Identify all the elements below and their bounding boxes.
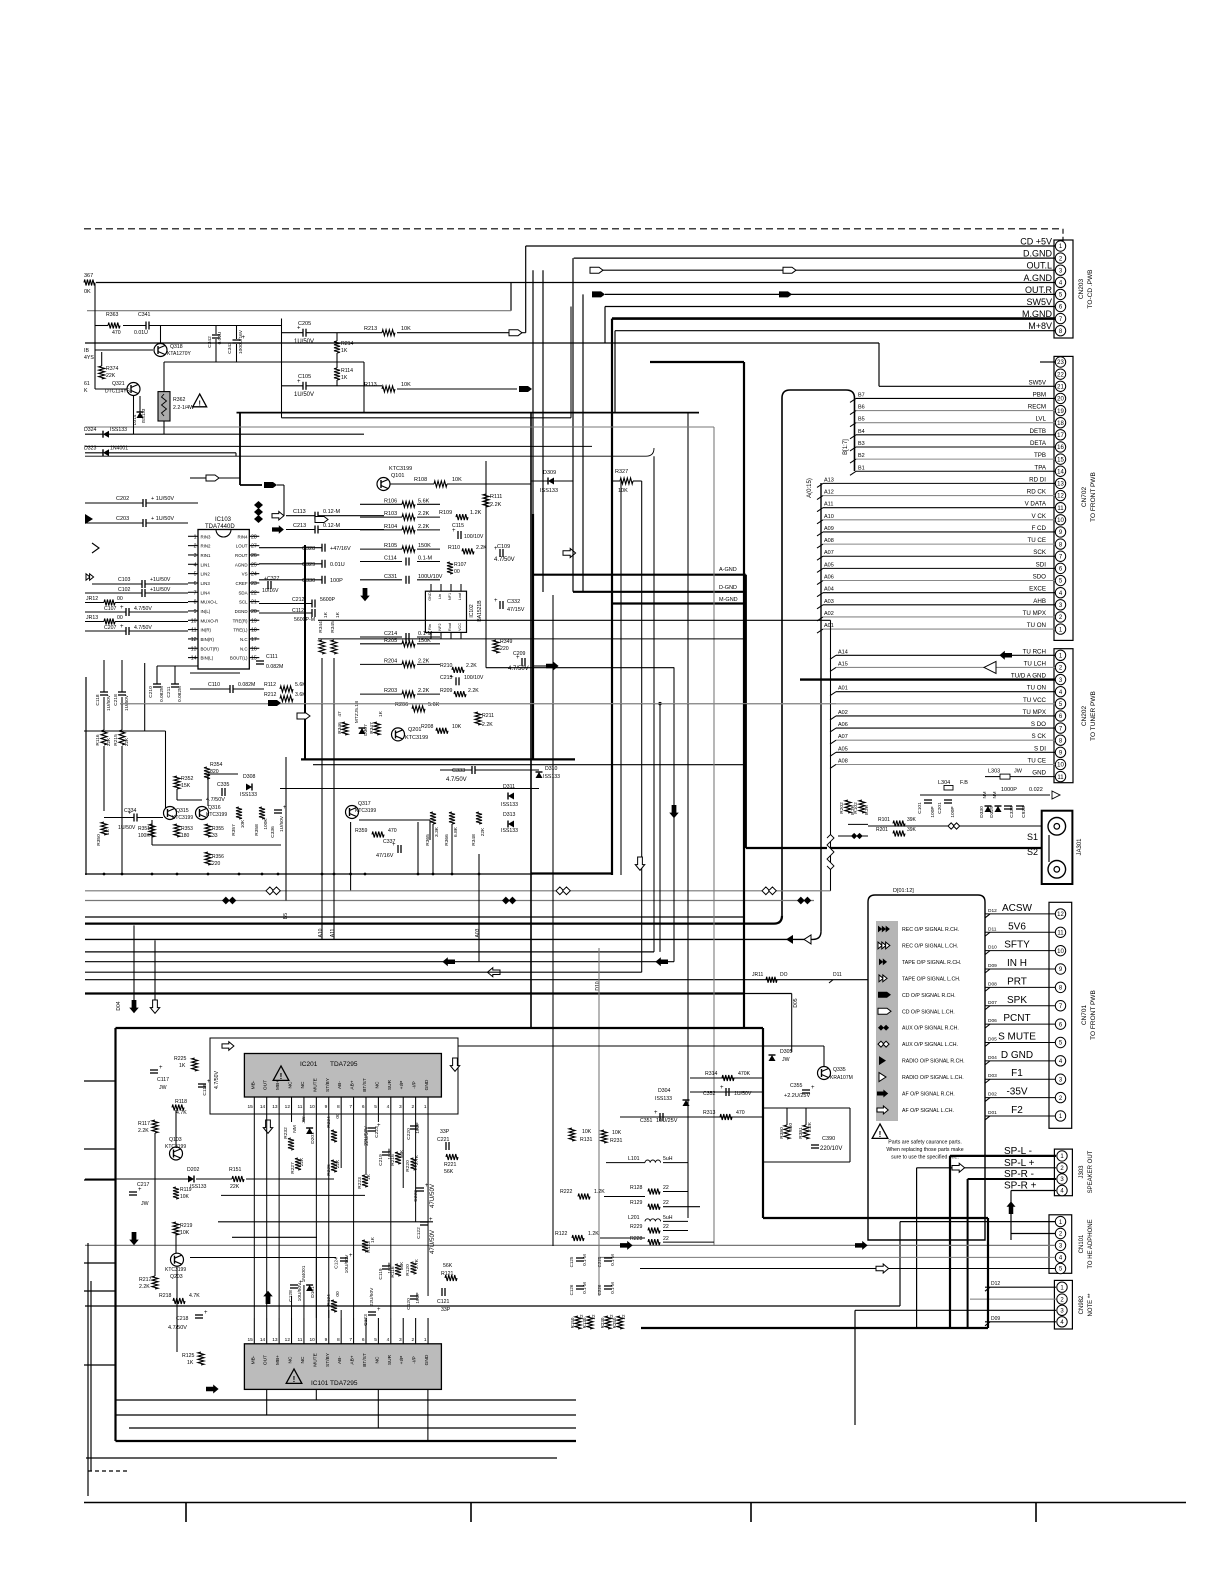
svg-text:MUXO-R: MUXO-R xyxy=(201,618,219,623)
svg-text:R351: R351 xyxy=(138,826,150,832)
svg-text:A10: A10 xyxy=(318,928,324,937)
IC103 pin 6 LIN3 xyxy=(188,582,198,584)
svg-text:10K: 10K xyxy=(401,382,411,388)
svg-text:12: 12 xyxy=(285,1104,291,1110)
legend row AUX O/P SIGNAL L.CH. xyxy=(878,1041,884,1047)
resistor R352 15K xyxy=(174,776,180,789)
safety warning triangle xyxy=(872,1124,888,1138)
CN702 pin 1 xyxy=(1055,624,1065,634)
svg-text:Q203: Q203 xyxy=(170,1274,183,1280)
ground bus D-GND xyxy=(573,591,746,593)
svg-text:C330: C330 xyxy=(302,578,315,584)
svg-text:C218: C218 xyxy=(113,694,119,706)
svg-text:22: 22 xyxy=(663,1236,669,1242)
svg-text:3: 3 xyxy=(399,1104,402,1110)
cd tag hollow mid xyxy=(315,517,328,523)
resistor R107 00 xyxy=(447,562,453,574)
svg-text:D308: D308 xyxy=(243,774,256,780)
legend row TAPE O/P SIGNAL L.CH. xyxy=(879,975,883,982)
svg-text:D10: D10 xyxy=(595,981,601,990)
ground bus M-GND xyxy=(612,602,746,604)
svg-text:B7: B7 xyxy=(858,392,865,398)
arrow input left2 xyxy=(92,543,99,553)
wire r151 row xyxy=(85,1178,188,1180)
legend row RADIO O/P SIGNAL R.CH. xyxy=(879,1056,886,1065)
svg-text:C118: C118 xyxy=(95,694,101,705)
resistor R350 1K xyxy=(101,822,107,835)
svg-text:D11: D11 xyxy=(988,926,997,932)
svg-text:1N4001: 1N4001 xyxy=(110,446,128,452)
svg-text:1U/50V: 1U/50V xyxy=(294,339,314,345)
svg-text:NF2: NF2 xyxy=(438,623,442,630)
svg-text:NM: NM xyxy=(992,791,997,798)
legend row AUX O/P SIGNAL R.CH. xyxy=(878,1025,884,1031)
svg-text:39K: 39K xyxy=(907,827,917,833)
svg-text:D07: D07 xyxy=(988,1000,997,1006)
wire riser x744 thick xyxy=(743,362,745,1028)
wire A09 to CN702 pin 9 xyxy=(823,531,1055,533)
svg-text:Q201: Q201 xyxy=(408,727,421,733)
svg-text:C202: C202 xyxy=(116,496,129,502)
svg-text:B3: B3 xyxy=(858,441,865,447)
wire TU/D A GND thick xyxy=(800,678,1055,680)
legend row TAPE O/P SIGNAL R.CH. xyxy=(879,959,883,966)
svg-text:GND: GND xyxy=(428,592,432,601)
svg-text:AF O/P SIGNAL R.CH.: AF O/P SIGNAL R.CH. xyxy=(902,1092,955,1098)
svg-text:17: 17 xyxy=(1057,433,1064,439)
CN701 pin 8 PRT xyxy=(1055,982,1065,992)
svg-text:A03: A03 xyxy=(475,928,481,937)
svg-text:TO HE ADPHONE: TO HE ADPHONE xyxy=(1088,1219,1094,1268)
svg-text:13: 13 xyxy=(1057,482,1064,488)
svg-text:+: + xyxy=(297,379,301,385)
svg-text:D304: D304 xyxy=(658,1088,671,1094)
wire bus y875 xyxy=(85,873,533,875)
svg-text:R390: R390 xyxy=(779,1127,785,1139)
wire c333 row xyxy=(440,769,472,771)
IC201 pin 2 -I/P xyxy=(415,1097,417,1110)
svg-text:ROUT: ROUT xyxy=(235,553,248,558)
svg-text:C201: C201 xyxy=(937,802,943,814)
CN101 pin 2 xyxy=(1055,1228,1065,1238)
svg-text:D09: D09 xyxy=(991,1316,1000,1322)
svg-text:10K: 10K xyxy=(452,477,462,483)
wire riser x612 thick xyxy=(611,604,613,876)
svg-text:TU ON: TU ON xyxy=(1027,622,1046,629)
resistor R348 22K xyxy=(476,812,482,824)
svg-text:D03: D03 xyxy=(988,1073,997,1079)
svg-text:TU CE: TU CE xyxy=(1027,537,1046,544)
svg-text:LIN4: LIN4 xyxy=(201,590,211,595)
svg-text:OUT: OUT xyxy=(263,1355,269,1365)
svg-text:22: 22 xyxy=(663,1200,669,1206)
arrow SP-R plus xyxy=(1007,1201,1016,1214)
svg-text:560: 560 xyxy=(788,1123,794,1131)
CN702 pin 18 xyxy=(1055,418,1065,428)
svg-text:100P: 100P xyxy=(330,578,343,584)
svg-text:0.082M: 0.082M xyxy=(266,664,283,670)
IC103 pin 25 AGND xyxy=(249,563,259,565)
capacitor C338 xyxy=(1004,805,1012,807)
svg-text:L101: L101 xyxy=(628,1156,640,1162)
svg-text:10/16V: 10/16V xyxy=(262,588,279,594)
svg-text:R350: R350 xyxy=(96,834,102,846)
svg-text:R151: R151 xyxy=(229,1167,242,1173)
wire A04 to CN702 pin 4 xyxy=(823,592,1055,594)
svg-text:+1U/50V: +1U/50V xyxy=(150,587,171,593)
svg-text:9: 9 xyxy=(194,609,197,615)
svg-text:C332: C332 xyxy=(507,599,520,605)
wire D09 to CN701 xyxy=(985,968,1055,970)
svg-text:D05: D05 xyxy=(793,998,799,1007)
svg-text:B[1:7]: B[1:7] xyxy=(843,439,849,455)
svg-text:D GND: D GND xyxy=(1001,1050,1033,1061)
svg-text:SP-L +: SP-L + xyxy=(1004,1158,1035,1169)
arrow input left xyxy=(85,514,93,524)
wire OUT.R xyxy=(605,293,1055,295)
capacitor C222 4.7U/50V xyxy=(416,1187,424,1189)
wire amp misc1 xyxy=(620,1116,763,1118)
wire D04 to CN701 xyxy=(985,1060,1055,1062)
wire D03 to CN701 xyxy=(985,1078,1055,1080)
wire SP-L plus xyxy=(917,1167,1056,1169)
svg-text:1000P: 1000P xyxy=(1001,787,1017,793)
wire c105 row xyxy=(282,385,304,387)
transistor Q317 KTC3199 xyxy=(346,806,359,819)
wire bus y900 with aux glyphs xyxy=(85,900,814,902)
wire riser x479 xyxy=(478,854,480,962)
svg-text:C128: C128 xyxy=(288,1290,294,1302)
border tick 2 xyxy=(470,1503,472,1523)
IC101 pin 5 NC xyxy=(377,1318,379,1344)
svg-text:C126: C126 xyxy=(569,1284,574,1295)
svg-text:Q315: Q315 xyxy=(176,808,189,814)
svg-text:C218: C218 xyxy=(176,1316,189,1322)
svg-text:D309: D309 xyxy=(543,470,556,476)
svg-text:C211: C211 xyxy=(166,686,172,697)
svg-text:CN203: CN203 xyxy=(1078,278,1085,299)
svg-text:NC: NC xyxy=(300,1356,306,1363)
svg-text:TO FRONT PWB: TO FRONT PWB xyxy=(1090,472,1097,522)
capacitor C210 0.082M xyxy=(153,683,161,685)
svg-text:7: 7 xyxy=(349,1104,352,1110)
CN702 pin 21 xyxy=(1055,381,1065,391)
wire amp misc2 xyxy=(690,1091,763,1093)
svg-text:Lout: Lout xyxy=(458,592,462,600)
connector CN701 body xyxy=(1049,902,1072,1128)
svg-text:JW: JW xyxy=(141,1201,149,1207)
resistor R202 8.2K xyxy=(845,800,851,813)
wire q318 xyxy=(160,326,162,344)
svg-text:470: 470 xyxy=(112,330,121,336)
CN202 pin 7 S DO xyxy=(1055,723,1065,733)
resistor R119 10K xyxy=(173,1187,179,1199)
svg-text:CD O/P SIGNAL L.CH.: CD O/P SIGNAL L.CH. xyxy=(902,1009,955,1015)
svg-text:Rout: Rout xyxy=(448,622,452,631)
svg-text:28: 28 xyxy=(251,534,257,540)
svg-text:ISS133: ISS133 xyxy=(110,427,127,433)
wire Q101 collector xyxy=(390,483,434,485)
svg-text:Rin: Rin xyxy=(428,624,432,630)
svg-text:+: + xyxy=(429,1217,433,1223)
capacitor C211 0.082M xyxy=(171,683,179,685)
capacitor C219 100P xyxy=(382,1151,390,1153)
svg-text:33: 33 xyxy=(212,833,218,839)
svg-text:A08: A08 xyxy=(838,758,848,764)
node diamond stack xyxy=(254,501,263,509)
svg-text:4.7/50V: 4.7/50V xyxy=(214,1071,220,1089)
svg-text:A05: A05 xyxy=(824,562,834,568)
svg-text:TPB: TPB xyxy=(1034,452,1046,459)
wire mid nodes xyxy=(152,844,281,846)
svg-text:MB-: MB- xyxy=(250,1080,256,1089)
svg-text:C923: C923 xyxy=(1021,806,1027,818)
svg-text:CREF: CREF xyxy=(236,581,248,586)
svg-text:SCK: SCK xyxy=(1033,549,1047,556)
CN202 pin 1 TU RCH xyxy=(1055,650,1065,660)
svg-text:Parts are safety caurance part: Parts are safety caurance parts. xyxy=(888,1140,962,1146)
svg-text:10U/50V: 10U/50V xyxy=(297,1282,303,1301)
svg-text:SFTY: SFTY xyxy=(1004,940,1030,951)
IC201 pin 13 MB+ xyxy=(278,1097,280,1110)
svg-text:D05: D05 xyxy=(988,1036,997,1042)
svg-text:R353: R353 xyxy=(181,826,193,832)
arrow right filled low xyxy=(206,1385,219,1394)
svg-text:BOUT(R): BOUT(R) xyxy=(201,646,220,651)
CN701 pin 9 IN H xyxy=(1055,964,1065,974)
wire D10 to CN701 xyxy=(985,950,1055,952)
svg-text:PCNT: PCNT xyxy=(1003,1013,1030,1024)
svg-text:220: 220 xyxy=(500,646,509,652)
IC103 pin 23 CREF xyxy=(249,582,259,584)
svg-text:TO TUNER PWB: TO TUNER PWB xyxy=(1090,691,1097,741)
svg-text:14: 14 xyxy=(260,1337,266,1343)
svg-text:NOTE **: NOTE ** xyxy=(1088,1293,1094,1317)
svg-text:56K: 56K xyxy=(444,1169,454,1175)
wire B3 to CN702 pin 16 xyxy=(856,446,1055,448)
IC201 pin 15 MB- xyxy=(253,1097,255,1110)
svg-text:R202: R202 xyxy=(839,802,845,814)
svg-text:0.01U: 0.01U xyxy=(330,562,345,568)
wire A06 to CN702 pin 5 xyxy=(823,580,1055,582)
IC201 pin 9 ST/BY xyxy=(328,1097,330,1110)
svg-text:+ 1U/50V: + 1U/50V xyxy=(151,516,174,522)
svg-text:LIN1: LIN1 xyxy=(201,562,211,567)
svg-text:KTC3199: KTC3199 xyxy=(206,812,227,818)
svg-text:1: 1 xyxy=(194,534,197,540)
svg-text:14: 14 xyxy=(191,656,197,662)
svg-text:+2.2U/25V: +2.2U/25V xyxy=(784,1093,810,1099)
wire bus y923 thick to B spine xyxy=(85,916,782,924)
wire D05 to CN701 xyxy=(985,1041,1055,1043)
capacitor C101 100P xyxy=(924,799,932,801)
svg-text:IC201: IC201 xyxy=(300,1061,318,1068)
svg-text:R222: R222 xyxy=(560,1189,573,1195)
wire q315 base xyxy=(104,817,134,819)
wire amp row4 xyxy=(190,1257,336,1259)
svg-text:R118: R118 xyxy=(175,1099,187,1105)
svg-text:A05: A05 xyxy=(838,746,848,752)
IC103 pin 5 LIN2 xyxy=(188,573,198,575)
svg-text:33P: 33P xyxy=(440,1129,450,1135)
svg-text:R347: R347 xyxy=(369,722,375,734)
wire box c205 xyxy=(281,319,283,418)
svg-text:NM: NM xyxy=(982,791,987,798)
svg-text:A10: A10 xyxy=(824,514,834,520)
svg-text:R229: R229 xyxy=(630,1224,643,1230)
svg-text:V CK: V CK xyxy=(1032,513,1047,520)
svg-text:NM: NM xyxy=(292,1125,298,1132)
svg-text:BT/ST: BT/ST xyxy=(362,1353,368,1367)
svg-text:1K: 1K xyxy=(105,828,111,835)
svg-text:R117: R117 xyxy=(138,1121,150,1127)
svg-text:+: + xyxy=(516,655,520,661)
vertical pin wires IC201-IC101 xyxy=(253,1110,255,1318)
svg-text:B5: B5 xyxy=(283,913,289,919)
svg-text:L201: L201 xyxy=(628,1215,640,1221)
wire jack sleeve thick xyxy=(745,604,747,849)
svg-text:B6: B6 xyxy=(858,405,865,411)
wire A11 to CN702 pin 11 xyxy=(823,507,1055,509)
IC103 pin 15 BOUT(L) xyxy=(249,657,259,659)
CN702 pin 20 xyxy=(1055,393,1065,403)
wire A13 to CN702 pin 13 xyxy=(823,482,1055,484)
svg-text:R107: R107 xyxy=(454,562,467,568)
IC103 pin 19 TRE(R) xyxy=(249,619,259,621)
svg-text:KTC3199: KTC3199 xyxy=(405,735,428,741)
svg-text:BOUT(L): BOUT(L) xyxy=(230,656,248,661)
svg-text:C123: C123 xyxy=(363,1314,369,1326)
capacitor C336 1U/50V xyxy=(274,809,282,811)
svg-text:20: 20 xyxy=(251,609,257,615)
arrow TU LCH xyxy=(984,661,996,673)
CN202 pin 6 TU MPX xyxy=(1055,711,1065,721)
svg-text:SW5V: SW5V xyxy=(1028,379,1046,386)
svg-text:7: 7 xyxy=(194,590,197,596)
svg-text:23: 23 xyxy=(251,581,257,587)
wire CN982 pin2 xyxy=(970,1298,1056,1300)
IC101 pin 6 BT/ST xyxy=(365,1318,367,1344)
CN702 pin 8 xyxy=(1055,539,1065,549)
svg-text:ISS133: ISS133 xyxy=(501,828,518,834)
resistor R219 10K xyxy=(173,1222,179,1235)
resistor R365 3.3K xyxy=(430,812,436,824)
svg-text:10: 10 xyxy=(1057,949,1064,955)
svg-text:R213: R213 xyxy=(364,326,377,332)
svg-text:R344: R344 xyxy=(318,621,324,633)
resistor R220 2.7K xyxy=(411,1158,417,1170)
wire riser x553 xyxy=(552,595,554,1246)
svg-text:F1: F1 xyxy=(1011,1068,1023,1079)
capacitor C118 1U/50V xyxy=(100,691,108,693)
IC103 pin 14 BIN(L) xyxy=(188,657,198,659)
svg-text:A01: A01 xyxy=(824,623,834,629)
svg-text:1U/50V: 1U/50V xyxy=(279,815,285,832)
svg-text:JW: JW xyxy=(1014,769,1023,775)
diode D330 xyxy=(985,806,992,812)
svg-text:+: + xyxy=(720,1085,724,1091)
cd tag hollow c205 xyxy=(509,330,522,336)
svg-text:DETA: DETA xyxy=(1030,440,1047,447)
CN202 pin 11 GND xyxy=(1055,771,1065,781)
svg-text:R231: R231 xyxy=(610,1138,623,1144)
resistor R346 47 xyxy=(342,722,348,735)
svg-text:56K: 56K xyxy=(443,1263,453,1269)
wire r390 bottom xyxy=(763,1161,850,1163)
svg-text:TDA7440D: TDA7440D xyxy=(205,524,235,530)
svg-text:Q101: Q101 xyxy=(391,473,404,479)
diode D329 xyxy=(995,806,1002,812)
svg-text:C226: C226 xyxy=(597,1284,602,1295)
svg-text:R352: R352 xyxy=(181,776,194,782)
svg-text:JW: JW xyxy=(159,1085,167,1091)
svg-text:367: 367 xyxy=(84,273,93,279)
svg-text:R355: R355 xyxy=(212,826,224,832)
svg-text:+: + xyxy=(377,1307,381,1313)
wire A05 to CN702 pin 6 xyxy=(823,567,1055,569)
svg-text:R359: R359 xyxy=(355,828,368,834)
transistor Q316 KTC3199 xyxy=(196,807,209,820)
svg-text:+: + xyxy=(120,605,124,611)
connector CN202 body xyxy=(1054,649,1073,783)
resistor R223 1K xyxy=(362,1175,368,1187)
svg-text:15: 15 xyxy=(1057,457,1064,463)
svg-text:47U/50V: 47U/50V xyxy=(429,1183,436,1208)
border tick 3 xyxy=(750,1503,752,1523)
J303 pin 4 SP-R + xyxy=(1057,1185,1067,1195)
wire TRE row 2 xyxy=(318,638,744,640)
svg-text:C225: C225 xyxy=(597,1256,602,1267)
connector CN982 body xyxy=(1054,1280,1072,1329)
transistor Q318 KTA1270Y xyxy=(154,344,167,357)
wire SW5V to CN702 pin21 xyxy=(879,385,1055,387)
svg-text:S DO: S DO xyxy=(1031,721,1046,728)
svg-text:CN982: CN982 xyxy=(1079,1295,1085,1314)
svg-text:!: ! xyxy=(879,1130,882,1139)
svg-text:SW5V: SW5V xyxy=(1026,297,1052,307)
svg-text:5: 5 xyxy=(374,1104,377,1110)
svg-text:100K: 100K xyxy=(263,818,269,830)
cd tag filled c105 xyxy=(519,386,532,392)
capacitor C332 47/16V xyxy=(499,601,501,609)
resistor R111 2.2K xyxy=(483,494,489,507)
resistor R114 1K xyxy=(334,368,340,380)
resistor R250 22 xyxy=(617,1316,623,1329)
wire riser x286 xyxy=(285,757,287,901)
CN702 pin 17 xyxy=(1055,430,1065,440)
svg-text:15: 15 xyxy=(247,1337,253,1343)
wire r365 col xyxy=(432,824,434,875)
diode D101 1N4001 xyxy=(306,1285,313,1291)
svg-text:A02: A02 xyxy=(824,611,834,617)
svg-text:R210: R210 xyxy=(440,663,453,669)
IC101 pin 10 MUTE xyxy=(315,1318,317,1344)
svg-text:A08: A08 xyxy=(824,538,834,544)
svg-text:GND: GND xyxy=(424,1079,430,1090)
svg-text:IN H: IN H xyxy=(1007,958,1027,969)
wire gnd joint xyxy=(745,575,747,604)
CN982 pin 2 xyxy=(1057,1294,1067,1304)
svg-text:R366: R366 xyxy=(444,834,450,846)
wire top y456 corner xyxy=(85,448,654,456)
wire left edge risers xyxy=(87,1243,89,1496)
svg-text:2.2K: 2.2K xyxy=(418,511,430,517)
svg-text:5: 5 xyxy=(194,572,197,578)
diode D305 JW xyxy=(769,1055,776,1061)
wire riser x134 xyxy=(133,925,135,1000)
JA301 ring contact xyxy=(1048,861,1066,879)
CN701 pin 10 SFTY xyxy=(1055,945,1065,955)
